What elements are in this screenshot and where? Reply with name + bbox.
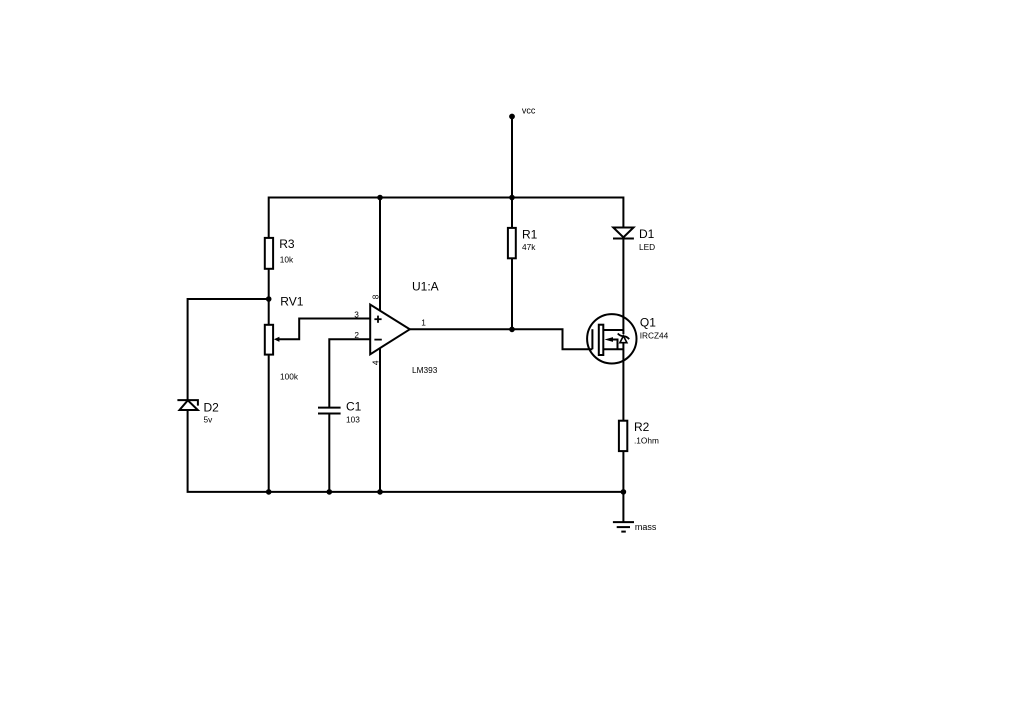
node top rail pin8 junction [377,195,383,201]
resistor R2 [619,421,627,451]
wire op-amp output to gate [410,329,593,349]
wire RV1 bottom lead [268,355,270,492]
svg-text:47k: 47k [522,242,536,252]
svg-text:103: 103 [346,415,360,425]
node RV1 top junction [266,296,272,302]
svg-text:RV1: RV1 [280,295,303,309]
svg-text:Q1: Q1 [640,315,656,329]
wire R1 top lead [511,198,513,228]
svg-text:1: 1 [421,318,426,328]
node bottom rail pin4 junction [377,489,383,495]
wire op-amp pin4 [379,348,381,492]
svg-text:U1:A: U1:A [412,280,439,294]
node vcc terminal [509,114,515,120]
wire Q1 source to R2 [622,342,624,420]
svg-text:.1Ohm: .1Ohm [634,435,659,445]
svg-text:LED: LED [639,242,655,252]
svg-text:100k: 100k [280,371,299,381]
diode D1 LED [613,228,634,239]
wire top rail [269,198,624,238]
wire op-amp pin2 from C1 [329,339,370,407]
wire R1 bottom lead [511,258,513,329]
svg-text:2: 2 [354,330,359,340]
op-amp U1 triangle [370,305,410,355]
svg-text:4: 4 [371,360,381,365]
svg-text:10k: 10k [280,255,294,265]
potentiometer RV1 body [265,325,273,355]
node bottom rail ground junction [621,489,627,495]
svg-text:IRCZ44: IRCZ44 [640,331,669,341]
svg-text:D1: D1 [639,227,655,241]
node bottom rail C1 junction [327,489,333,495]
resistor R1 [508,228,516,258]
node output R1 junction [509,327,515,333]
svg-text:R1: R1 [522,227,538,241]
svg-text:C1: C1 [346,400,362,414]
wire C1 bottom lead [328,414,330,492]
capacitor C1 [318,408,341,414]
transistor Q1 [587,314,636,363]
resistor R3 [265,238,273,269]
wire left loop to D2 [188,299,269,400]
svg-text:R2: R2 [634,420,650,434]
svg-text:D2: D2 [204,401,220,415]
svg-text:5v: 5v [204,415,214,425]
wire op-amp pin8 [379,198,381,311]
wire R3 bottom lead [268,269,270,325]
op-amp minus symbol [374,339,381,341]
svg-text:R3: R3 [279,237,295,251]
ground [613,492,634,532]
potentiometer RV1 wiper arrow [274,319,370,342]
diode D2 zener [177,400,198,410]
svg-text:LM393: LM393 [412,365,438,375]
op-amp plus symbol [374,316,381,323]
svg-text:mass: mass [635,522,657,532]
wire vcc drop [511,117,513,198]
node bottom rail RV1 junction [266,489,272,495]
svg-text:3: 3 [354,309,359,319]
wire D1 to Q1 drain [622,239,624,335]
wire R2 bottom lead [622,451,624,492]
wire bottom rail [188,410,624,492]
svg-text:8: 8 [371,294,381,299]
svg-text:vcc: vcc [522,106,536,116]
node top rail vcc junction [509,195,515,201]
